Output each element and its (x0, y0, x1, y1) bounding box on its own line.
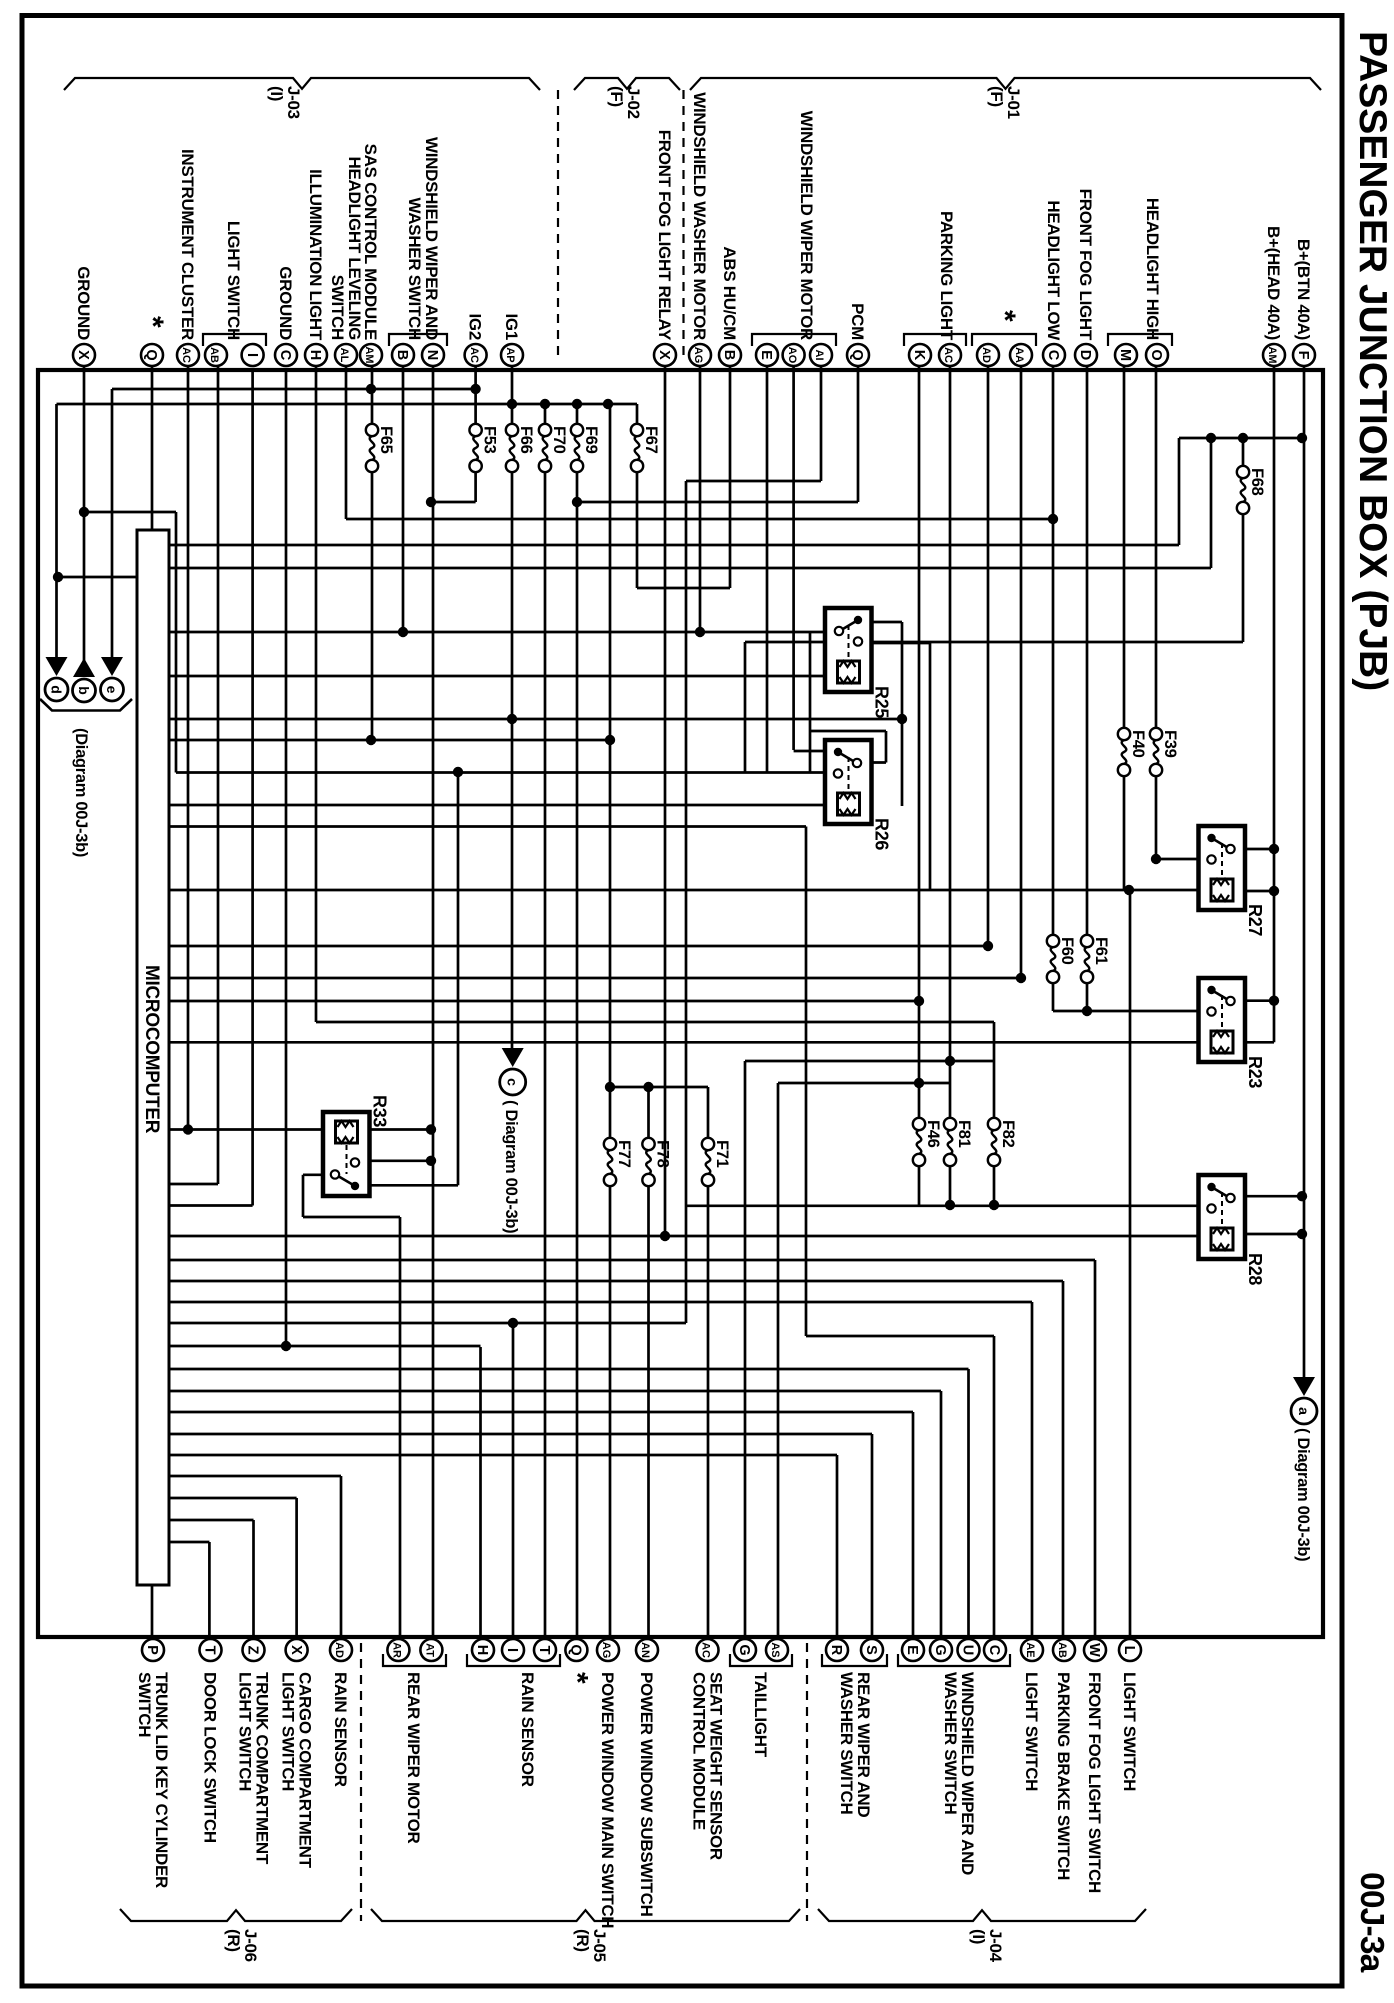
junction x=665 y=1236 (660, 1231, 670, 1241)
brace J-01 (F) (690, 78, 1321, 90)
svg-text:G: G (932, 1644, 948, 1655)
junction x=577 y=502 (572, 497, 582, 507)
svg-text:AS: AS (769, 1642, 781, 1657)
svg-text:F70: F70 (550, 426, 568, 454)
svg-text:b: b (76, 686, 92, 695)
svg-text:R33: R33 (370, 1095, 390, 1127)
wire R26 output riser (885, 731, 888, 763)
bottom terminal I x=513 (502, 1639, 524, 1661)
svg-text:Q: Q (568, 1644, 584, 1655)
wire F67 to ABS bus (637, 587, 730, 590)
wire mc bus to R26 coil (169, 804, 836, 807)
svg-text:K: K (911, 350, 927, 361)
bottom terminal X x=296.6 (286, 1639, 308, 1661)
wire ground bus upper (84, 511, 176, 514)
svg-text:TAILLIGHT: TAILLIGHT (751, 1672, 770, 1758)
junction x=610 y=740 (605, 735, 615, 745)
wire H illumination drop (315, 366, 318, 1022)
wire mc bus to I (169, 1204, 253, 1207)
wire G taillight drop (744, 1061, 747, 1649)
bottom terminal AS x=777 (766, 1639, 788, 1661)
junction x=403 y=632 (398, 627, 408, 637)
svg-text:a: a (1296, 1407, 1312, 1415)
junction x=1021 y=978 (1016, 973, 1026, 983)
junction x=950 y=1061 (945, 1056, 955, 1066)
bottom terminal AB x=1064 (1053, 1639, 1075, 1661)
svg-text:*: * (560, 1672, 593, 1684)
wire C headlight low rail to F60 (1052, 366, 1055, 945)
top terminal AC x=475.6 (465, 344, 487, 366)
fuse F70 (539, 424, 551, 436)
bottom terminal Z x=253.5 (243, 1639, 265, 1661)
top terminal B x=403 (392, 344, 414, 366)
fuse F68 (1237, 466, 1249, 478)
wire mc ground bus to H (169, 1345, 481, 1348)
svg-text:R26: R26 (872, 818, 892, 850)
wire F82 top feed (993, 1022, 996, 1124)
svg-text:F53: F53 (481, 426, 499, 454)
svg-text:LIGHT SWITCH: LIGHT SWITCH (1022, 1672, 1041, 1791)
svg-text:WINDSHIELD WASHER MOTOR: WINDSHIELD WASHER MOTOR (690, 92, 709, 340)
wire AS taillight drop (777, 1083, 780, 1649)
svg-text:O: O (1148, 349, 1164, 360)
svg-text:F78: F78 (654, 1140, 672, 1168)
wire F67 top feed (636, 404, 639, 434)
junction x=188 y=1129.5 (183, 1124, 193, 1134)
brace J-06 (R) (120, 1909, 352, 1921)
svg-text:T: T (536, 1646, 552, 1655)
bracket RAIN SENSOR (H,I,T) (467, 1654, 560, 1666)
wire mc bus to X (169, 1497, 297, 1500)
wire R25/R26 common rail (901, 622, 904, 806)
wire mc bus S-route (169, 1322, 686, 1325)
wire W front fog switch drop (1094, 1260, 1097, 1649)
wire mc bus to Z (169, 1519, 254, 1522)
wire AR rear wiper drop (399, 1217, 402, 1649)
svg-text:M: M (1117, 349, 1133, 361)
wire F70 top feed (544, 404, 547, 434)
fuse F78 (642, 1138, 654, 1150)
wire X front fog relay drop (664, 366, 667, 1236)
fuse F77 (604, 1138, 616, 1150)
wire F77 bottom to AG (609, 1176, 612, 1649)
svg-text:( Diagram 00J-3b): ( Diagram 00J-3b) (502, 1100, 520, 1233)
svg-text:AD: AD (980, 347, 992, 363)
svg-text:B: B (394, 350, 410, 360)
wire mc bus to AB (169, 1280, 1063, 1283)
bottom terminal AG x=608 (597, 1639, 619, 1661)
wire F68 bottom bus (745, 641, 1243, 644)
relay R23 (1199, 978, 1246, 1062)
wire AG washer motor drop (699, 366, 702, 632)
wire R33 output to riser (303, 1173, 336, 1176)
top terminal X x=665 (654, 344, 676, 366)
wire AI route (686, 480, 821, 483)
PJB box (38, 370, 1323, 1637)
wire F68 route vertical (744, 642, 747, 773)
svg-text:P: P (144, 1645, 160, 1655)
wire X cargo light drop (295, 1498, 298, 1649)
wire F71 bottom to AC (707, 1176, 710, 1649)
svg-text:(R): (R) (224, 1929, 243, 1952)
svg-text:e: e (104, 686, 120, 694)
relay R26 (825, 740, 872, 824)
svg-text:( Diagram 00J-3b): ( Diagram 00J-3b) (1294, 1428, 1312, 1561)
svg-text:F65: F65 (377, 426, 395, 454)
wire F39 bottom (1155, 766, 1158, 859)
wire F78 bottom to AN (647, 1176, 650, 1649)
wire AM B+HEAD rail (1273, 366, 1276, 1042)
svg-text:LIGHT SWITCH: LIGHT SWITCH (236, 1672, 255, 1791)
svg-text:E: E (904, 1645, 920, 1655)
wire mc bus to AD (169, 1475, 341, 1478)
svg-text:AB: AB (208, 347, 220, 363)
wire AO wiper motor drop (792, 366, 795, 750)
wire mc bus to R25 contact (169, 631, 839, 634)
bottom terminal AE x=1032 (1021, 1639, 1043, 1661)
wire M headlight high to F40 (1123, 366, 1126, 738)
wire C-switch bus (806, 1335, 994, 1338)
top terminal K x=920 (909, 344, 931, 366)
svg-text:Q: Q (143, 349, 159, 360)
svg-text:WASHER SWITCH: WASHER SWITCH (837, 1672, 856, 1815)
fuse F66 (506, 424, 518, 436)
svg-text:C: C (277, 350, 293, 361)
wire mc bus to AE (169, 1301, 1032, 1304)
top terminal B x=730 (719, 344, 741, 366)
junction x=1274 y=849 (1269, 844, 1279, 854)
bottom terminal AC x=707.5 (697, 1639, 719, 1661)
wire ground route riser (175, 512, 178, 773)
wire AB light switch drop (217, 366, 220, 1184)
svg-text:B+(HEAD 40A): B+(HEAD 40A) (1264, 226, 1283, 340)
svg-text:SWITCH: SWITCH (328, 275, 347, 340)
junction x=988 y=946 (983, 941, 993, 951)
svg-text:F39: F39 (1161, 730, 1179, 758)
bracket * (AD,AA) (972, 334, 1036, 346)
svg-text:R28: R28 (1245, 1253, 1265, 1285)
bottom terminal AN x=647 (636, 1639, 658, 1661)
wire F60/F61 to R23 contact (1053, 1010, 1212, 1013)
fuse F39 (1150, 728, 1162, 740)
svg-text:R23: R23 (1245, 1056, 1265, 1088)
wire mc bus to R25 coil (169, 675, 836, 678)
wire F65 bottom to bus (371, 462, 374, 740)
svg-text:FRONT FOG LIGHT: FRONT FOG LIGHT (1076, 189, 1095, 341)
svg-text:*: * (136, 316, 169, 328)
svg-text:H: H (474, 1645, 490, 1655)
connector d (to 00J-3b) (46, 657, 68, 676)
svg-text:F40: F40 (1129, 730, 1147, 758)
junction x=950 y=1205 (945, 1200, 955, 1210)
wire ground route riser 2 (457, 772, 460, 1185)
wire mc bus to U (169, 1368, 969, 1371)
connector a (to 00J-3b) (1293, 1377, 1315, 1396)
wire mc bus to C-switch route (169, 825, 806, 828)
svg-text:AM: AM (363, 346, 375, 363)
wire F61 bottom (1086, 981, 1089, 1011)
wire IG1 rail down to connector c (511, 462, 514, 1052)
bracket WINDSHIELD WIPER AND WASHER SWITCH (B,N) (389, 334, 447, 346)
wire N wiper switch rail to AT (432, 366, 435, 1649)
svg-text:LIGHT SWITCH: LIGHT SWITCH (1120, 1672, 1139, 1791)
svg-text:00J-3a: 00J-3a (1353, 1872, 1390, 1973)
svg-text:MICROCOMPUTER: MICROCOMPUTER (141, 965, 162, 1134)
wire F68 bottom (1242, 504, 1245, 642)
svg-text:F67: F67 (642, 426, 660, 454)
top terminal AI x=821 (810, 344, 832, 366)
wire F46 bottom (918, 1160, 921, 1205)
wire ground bus to R26 contact / E (176, 771, 839, 774)
svg-text:FRONT FOG LIGHT SWITCH: FRONT FOG LIGHT SWITCH (1085, 1672, 1104, 1893)
svg-text:AL: AL (338, 348, 350, 363)
svg-text:HEADLIGHT HIGH: HEADLIGHT HIGH (1143, 198, 1162, 340)
wire mc bus to G (169, 1390, 941, 1393)
svg-text:X: X (75, 350, 91, 360)
svg-text:F77: F77 (615, 1140, 633, 1168)
wire S-route vertical (685, 481, 688, 1323)
junction x=1156 y=859 (1151, 854, 1161, 864)
wire mc bus to AD (169, 945, 988, 948)
wire taillight G bus (745, 1060, 994, 1063)
wire R33 output riser (302, 1175, 305, 1217)
svg-text:AC: AC (942, 347, 954, 363)
svg-text:X: X (656, 350, 672, 360)
wire F60 bottom (1052, 981, 1055, 1011)
svg-text:*: * (988, 310, 1021, 322)
svg-text:AG: AG (692, 347, 704, 364)
relay R25 (825, 608, 872, 692)
wire R27 out to AM rail (1230, 848, 1274, 851)
wire F40 bottom (1123, 766, 1126, 890)
fuse F53 (469, 424, 481, 436)
top terminal AC x=950 (939, 344, 961, 366)
svg-text:GROUND: GROUND (74, 266, 93, 340)
top terminal D x=1086 (1075, 344, 1097, 366)
svg-text:ILLUMINATION LIGHT: ILLUMINATION LIGHT (306, 169, 325, 341)
bracket LIGHT SWITCH (AB,I) (203, 334, 266, 346)
svg-text:WINDSHIELD WIPER MOTOR: WINDSHIELD WIPER MOTOR (797, 111, 816, 340)
dashed separator J-06/J-05 (360, 1643, 362, 1921)
svg-text:GROUND: GROUND (276, 266, 295, 340)
svg-text:F46: F46 (924, 1120, 942, 1148)
svg-text:AC: AC (468, 347, 480, 363)
brace J-02 (F) (574, 78, 680, 90)
wire R25 second contact route (929, 643, 932, 890)
svg-text:AC: AC (180, 347, 192, 363)
wire AE light switch drop (1031, 1302, 1034, 1649)
bottom terminal AR x=398.4 (387, 1639, 409, 1661)
wire X GROUND drop to connector b (83, 366, 86, 662)
bottom terminal G x=745 (734, 1639, 756, 1661)
fuse F81 (944, 1118, 956, 1130)
svg-text:c: c (505, 1078, 521, 1086)
junction x=431 y=1129.5 (426, 1124, 436, 1134)
wire R33 route to AR (303, 1216, 400, 1219)
wire C ground drop (285, 370, 288, 1345)
bracket TAILLIGHT (G,AS) (730, 1654, 792, 1666)
junction x=610 y=1087 (605, 1082, 615, 1092)
wire F69 to PCM bus (577, 501, 858, 504)
svg-text:C: C (986, 1645, 1002, 1656)
junction x=994 y=1205 (989, 1200, 999, 1210)
connector e (to 00J-3b) (101, 657, 123, 676)
junction x=371 y=740 (366, 735, 376, 745)
wire F68 top feed (1242, 438, 1245, 476)
wire H rain sensor drop (479, 1347, 482, 1649)
svg-text:SWITCH: SWITCH (135, 1672, 154, 1737)
svg-text:AN: AN (639, 1642, 651, 1658)
dashed separator J-05/J-04 (806, 1643, 808, 1921)
wire F39 to R27 contact (1156, 858, 1212, 861)
svg-text:INSTRUMENT CLUSTER: INSTRUMENT CLUSTER (178, 149, 197, 340)
svg-text:AD: AD (333, 1642, 345, 1658)
wire AC parking light rail to F81 (949, 366, 952, 1124)
wire mc bus to R28 coil (169, 1235, 1210, 1238)
wire AA drop (1020, 366, 1023, 980)
top terminal AL x=346 (335, 344, 357, 366)
svg-text:F81: F81 (955, 1120, 973, 1148)
svg-text:IG1: IG1 (502, 313, 521, 340)
top terminal O x=1157 (1146, 344, 1168, 366)
svg-text:AB: AB (1056, 1642, 1068, 1658)
wire mc bus to E (169, 1411, 913, 1414)
bracket REAR WIPER MOTOR (AR,AT) (383, 1654, 446, 1666)
wire mc bus to AB light switch (169, 1183, 218, 1186)
wire O headlight high to F39 (1155, 366, 1158, 738)
fuse F71 (702, 1138, 714, 1150)
svg-text:F61: F61 (1092, 937, 1110, 965)
fuse F40 (1118, 728, 1130, 740)
top terminal AD x=988 (977, 344, 999, 366)
wire R25 common out (857, 621, 902, 624)
svg-text:I: I (244, 353, 260, 357)
wire taillight AS bus (778, 1082, 950, 1085)
top terminal C x=286 (275, 344, 297, 366)
top terminal AG x=700 (689, 344, 711, 366)
top terminal AC x=188 (177, 344, 199, 366)
svg-text:(R): (R) (573, 1929, 592, 1952)
svg-text:PARKING LIGHT: PARKING LIGHT (937, 211, 956, 341)
fuse F61 (1081, 935, 1093, 947)
top terminal Q x=152 (141, 344, 163, 366)
connector b (from 00J-3b) (73, 658, 95, 677)
bottom terminal W x=1095 (1084, 1639, 1106, 1661)
fuse F60 (1047, 935, 1059, 947)
top terminal AM x=371 (360, 344, 382, 366)
fuse F65 (366, 424, 378, 436)
wire F69 bottom rail to Q (576, 462, 579, 1649)
junction x=512 y=719 (507, 714, 517, 724)
junction x=919 y=1001 (914, 996, 924, 1006)
wire IG1 branch rail to F77 (609, 404, 612, 1148)
wire R25 second contact out (857, 642, 930, 645)
junction x=1302 y=1234 (1297, 1229, 1307, 1239)
svg-text:I: I (504, 1648, 520, 1652)
svg-text:d: d (49, 685, 65, 694)
svg-text:E: E (758, 350, 774, 360)
svg-text:AO: AO (786, 347, 798, 364)
svg-text:AR: AR (391, 1642, 403, 1658)
fuse F67 (631, 424, 643, 436)
microcomputer box (137, 530, 169, 1585)
junction x=371 y=389 (366, 384, 376, 394)
wire AI wiper motor drop (820, 366, 823, 481)
wire H to F82 bus (316, 1021, 994, 1024)
wire T door lock drop (208, 1542, 211, 1649)
bottom terminal U x=968.5 (958, 1639, 980, 1661)
wire R28 coil to F rail (1245, 1233, 1304, 1236)
svg-text:F66: F66 (517, 426, 535, 454)
junction x=1302 y=1196.2 (1297, 1191, 1307, 1201)
svg-text:F: F (1295, 351, 1311, 360)
junction x=608 y=404 (603, 399, 613, 409)
junction x=577 y=404 (572, 399, 582, 409)
wire Q PCM drop (857, 366, 860, 502)
bottom terminal AD x=341 (330, 1639, 352, 1661)
svg-text:IG2: IG2 (466, 313, 485, 340)
wire F81 bottom (949, 1160, 952, 1205)
junction x=919 y=1083 (914, 1078, 924, 1088)
bottom terminal S x=872 (861, 1639, 883, 1661)
dashed separator J-02/J-01 (682, 90, 684, 362)
top terminal AA x=1021 (1010, 344, 1032, 366)
svg-text:CONTROL MODULE: CONTROL MODULE (690, 1672, 709, 1830)
svg-text:WASHER SWITCH: WASHER SWITCH (405, 198, 424, 341)
svg-text:AT: AT (424, 1643, 436, 1657)
svg-text:(I): (I) (267, 86, 286, 101)
svg-text:Z: Z (245, 1646, 261, 1655)
wire AC instrument cluster drop (187, 366, 190, 1130)
wire F53 bottom (474, 462, 477, 502)
wire S rear wiper drop (871, 1434, 874, 1649)
wire mc bus to R23 coil (169, 1041, 1199, 1044)
wire AB parking brake drop (1062, 1281, 1065, 1649)
wire R33 second contact out (355, 1159, 431, 1162)
brace under d b e (40, 699, 132, 711)
brace J-05 (R) (371, 1909, 800, 1921)
wire mc bus to S (169, 1433, 872, 1436)
svg-text:R: R (828, 1645, 844, 1656)
wire F53 to N rail (431, 501, 476, 504)
wire F69 top feed (576, 404, 579, 434)
svg-text:Q: Q (849, 349, 865, 360)
junction x=1211 y=438 (1206, 433, 1216, 443)
wire E wiper switch drop (912, 1412, 915, 1649)
wire R25 contact tie (809, 632, 812, 773)
wire R33 common out (355, 1184, 458, 1187)
wire mc bus to B+ route a (169, 544, 1179, 547)
top terminal AB x=216 (205, 344, 227, 366)
svg-text:RAIN SENSOR: RAIN SENSOR (518, 1672, 537, 1787)
svg-text:REAR WIPER MOTOR: REAR WIPER MOTOR (404, 1672, 423, 1844)
svg-text:T: T (202, 1646, 218, 1655)
wire F70 bottom rail to T (544, 462, 547, 1649)
fuse F82 (988, 1118, 1000, 1130)
wire F71 top feed (707, 1087, 710, 1148)
wire R26 output (857, 761, 886, 764)
brace J-03 (I) (64, 78, 540, 90)
svg-text:(F): (F) (607, 86, 626, 107)
wire mc bus to B+ route b (169, 567, 1211, 570)
wire mc bus to R27 coil (169, 889, 1210, 892)
wire R28 out to F rail (1230, 1195, 1304, 1198)
junction x=1274 y=1000.7 (1269, 996, 1279, 1006)
svg-text:PCM: PCM (848, 303, 867, 340)
wire E wiper motor drop (766, 366, 769, 773)
svg-text:R25: R25 (872, 686, 892, 718)
svg-text:LIGHT SWITCH: LIGHT SWITCH (224, 221, 243, 340)
